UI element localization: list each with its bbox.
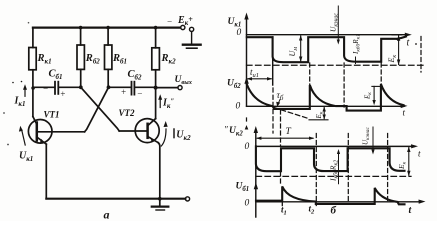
- wire cross diagonal d1: [81, 87, 119, 131]
- dashed level -EK panel1: [247, 64, 425, 66]
- svg-text:б: б: [331, 205, 337, 217]
- svg-text:−: −: [167, 17, 173, 27]
- label t2: [309, 204, 316, 216]
- svg-text:tи1: tи1: [250, 67, 259, 79]
- label IK2 with arrow: [159, 98, 161, 108]
- node emitter VT2 rail: [158, 197, 162, 201]
- node collector VT2: [154, 86, 158, 90]
- label EK panel1 with dimension: [392, 34, 402, 36]
- svg-text:Cб2: Cб2: [128, 69, 143, 82]
- svg-text:Cб1: Cб1: [49, 69, 63, 82]
- svg-text:Uк2: Uк2: [229, 126, 243, 138]
- svg-text:0: 0: [245, 142, 250, 152]
- label Ikb0Rk2 with leader: [329, 160, 340, 182]
- svg-text:VT2: VT2: [119, 108, 136, 118]
- label EK panel2 second with dimension: [372, 85, 381, 87]
- svg-text:0: 0: [237, 28, 242, 38]
- wire output: [156, 87, 178, 89]
- svg-text:Uб2: Uб2: [227, 79, 241, 91]
- svg-text:Iк″: Iк″: [162, 98, 174, 111]
- wire base lead VT2: [119, 130, 147, 132]
- label UK2 with arrow: [161, 129, 166, 146]
- svg-text:T: T: [286, 127, 292, 137]
- svg-text:t2: t2: [309, 204, 316, 216]
- label Uvyh: [175, 75, 193, 86]
- label b: [331, 205, 337, 217]
- curve U61: [256, 186, 405, 204]
- transistor VT1: [28, 120, 52, 144]
- label tu1 with dimension: [250, 67, 259, 79]
- svg-text:Rк2: Rк2: [161, 53, 177, 66]
- svg-text:t: t: [418, 149, 421, 159]
- curve UK1: [247, 37, 406, 63]
- terminal Ek left: [181, 25, 185, 29]
- svg-text:−: −: [137, 89, 143, 99]
- terminal bottom right: [185, 197, 189, 201]
- svg-text:Rк1: Rк1: [37, 53, 52, 66]
- svg-text:Iкб0Rк1: Iкб0Rк1: [352, 34, 362, 55]
- resistor R62: [79, 26, 83, 30]
- wire base lead VT1: [37, 131, 85, 133]
- ground bottom: [159, 199, 161, 207]
- svg-text:t1: t1: [281, 205, 287, 217]
- wire top supply rail: [33, 27, 180, 29]
- wire Ek to ground: [191, 32, 193, 44]
- node base coupling right: [107, 85, 111, 89]
- axis U62: [244, 77, 248, 84]
- dashed vertical at 344 lower: [343, 63, 345, 107]
- svg-text:Iк1: Iк1: [14, 96, 26, 109]
- curve UK2: [256, 146, 405, 171]
- svg-text:″: ″: [224, 125, 228, 135]
- label a: [104, 208, 110, 222]
- axis UK2: [255, 130, 257, 218]
- svg-text:Uм: Uм: [288, 47, 299, 57]
- svg-text:Iкб0Rк2: Iкб0Rк2: [329, 160, 340, 182]
- axis UK1: [246, 16, 248, 106]
- resistor RK2: [154, 26, 158, 30]
- svg-text:Uб1: Uб1: [236, 182, 250, 194]
- wire bottom rail: [46, 198, 185, 200]
- svg-text:τб: τб: [277, 91, 284, 102]
- terminal Ek right: [190, 27, 194, 31]
- label Um with dimension: [300, 36, 302, 62]
- svg-text:Eк: Eк: [397, 161, 408, 170]
- wire cross diagonal d2: [85, 87, 109, 132]
- label Ukenas panel1 with leader: [329, 13, 340, 32]
- label EK panel2 first with dimension: [323, 108, 325, 119]
- dashed vertical t1 upper: [272, 37, 274, 85]
- svg-text:0: 0: [245, 199, 250, 209]
- ground top right: [183, 44, 201, 46]
- dashed asymptote diagonal: [274, 108, 309, 119]
- label IK1 with arrow: [24, 88, 26, 96]
- svg-text:−: −: [43, 84, 49, 94]
- svg-text:Uк1: Uк1: [228, 17, 242, 29]
- svg-text:а: а: [104, 208, 110, 222]
- dashed vertical t1 lower: [280, 110, 282, 146]
- capacitor C62: [109, 86, 131, 88]
- svg-text:t: t: [403, 108, 406, 118]
- node base coupling left: [79, 85, 83, 89]
- noise speck: [28, 22, 30, 24]
- svg-text:Uк1: Uк1: [19, 151, 33, 164]
- label T with dimension: [286, 127, 292, 137]
- axis U61: [254, 182, 258, 189]
- svg-text:Uкэнас: Uкэнас: [329, 13, 340, 32]
- svg-text:Rб2: Rб2: [85, 53, 101, 66]
- dashed level -EK panel3: [256, 175, 411, 177]
- terminal Uvyh: [178, 86, 182, 90]
- svg-text:Eк+: Eк+: [177, 15, 193, 27]
- svg-text:Uк2: Uк2: [176, 130, 191, 143]
- dashed vertical t2 upper: [309, 63, 311, 86]
- svg-text:+: +: [60, 89, 66, 99]
- label -Ek+: [167, 15, 194, 27]
- label Ukenas panel3 with leader: [362, 127, 372, 145]
- dashed vertical right edge: [420, 37, 422, 73]
- label tau6 with leader: [277, 91, 284, 102]
- dashed vertical at 348 lower: [347, 134, 349, 201]
- resistor R61: [106, 26, 110, 30]
- svg-text:t: t: [407, 38, 410, 49]
- svg-text:+: +: [121, 87, 127, 97]
- label Ikb0Rk1 with leader: [352, 34, 362, 55]
- dashed vertical t2 lower: [315, 134, 317, 206]
- svg-text:Uкэнас: Uкэнас: [362, 127, 372, 145]
- svg-text:0: 0: [236, 102, 241, 112]
- axis pointer mark: [245, 125, 249, 130]
- label UK1 with arrow: [22, 130, 26, 145]
- dashed vertical at 387 lower: [387, 134, 389, 201]
- transistor VT2: [135, 119, 159, 143]
- level tick: [309, 119, 328, 121]
- svg-text:Rб1: Rб1: [112, 53, 127, 66]
- node collector VT1: [31, 86, 35, 90]
- svg-text:VT1: VT1: [44, 110, 60, 120]
- svg-text:Eк: Eк: [364, 92, 374, 100]
- label t1: [281, 202, 283, 206]
- label EK panel3 with dimension: [408, 148, 410, 176]
- capacitor C61: [33, 86, 54, 88]
- resistor RK1: [32, 28, 34, 48]
- svg-text:Eк: Eк: [387, 55, 398, 64]
- svg-text:Uвых: Uвых: [175, 75, 193, 86]
- dashed vertical at 381 gap: [380, 63, 382, 85]
- curve U62: [247, 84, 404, 111]
- svg-text:t: t: [409, 205, 413, 216]
